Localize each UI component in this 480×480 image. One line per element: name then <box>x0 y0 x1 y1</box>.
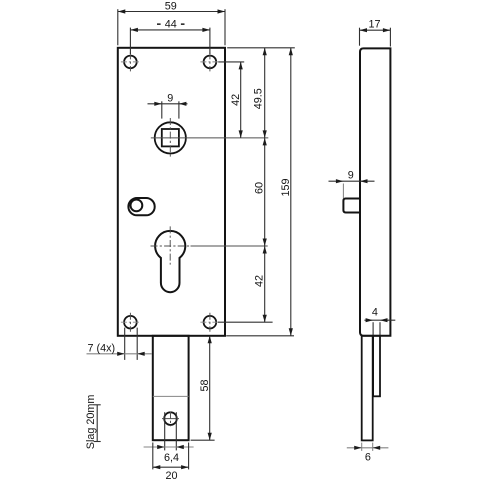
svg-text:7 (4x): 7 (4x) <box>88 343 116 355</box>
svg-text:49.5: 49.5 <box>253 88 265 109</box>
dimension 44 hole spacing <box>130 18 210 54</box>
mounting hole bottom-left <box>121 313 140 332</box>
svg-text:4: 4 <box>372 307 378 319</box>
spindle hole circle <box>155 122 186 153</box>
side view follower protrusion <box>343 199 360 213</box>
mounting hole top-right <box>200 52 219 71</box>
dimension 59 top width <box>118 0 225 45</box>
svg-text:9: 9 <box>348 169 354 181</box>
mounting hole bottom-right <box>200 313 219 332</box>
extension line bottom hole center <box>218 321 273 323</box>
dimension 58 bolt length <box>191 336 215 440</box>
svg-text:42: 42 <box>230 94 242 106</box>
dimension 20 bolt width <box>153 443 189 480</box>
svg-text:6,4: 6,4 <box>164 452 179 464</box>
side view guide strip <box>373 336 380 397</box>
extension line top hole center <box>218 61 244 63</box>
dimension 49.5 <box>253 48 267 138</box>
svg-text:9: 9 <box>167 92 173 104</box>
svg-text:44: 44 <box>165 18 177 30</box>
dimension 4 guide strip <box>364 307 395 336</box>
lock case plate outline <box>118 48 225 336</box>
svg-text:17: 17 <box>368 18 380 30</box>
extension line plate top right <box>227 47 295 49</box>
dimension 159 overall <box>280 48 293 336</box>
dimension 42 upper <box>230 62 243 138</box>
side view case body <box>360 48 390 335</box>
dimension 17 side width <box>360 18 391 46</box>
extension line plate bottom right <box>226 335 294 337</box>
svg-text:6: 6 <box>365 452 371 464</box>
dimension 60 <box>254 138 267 246</box>
svg-text:58: 58 <box>199 379 211 391</box>
bolt front view <box>153 336 189 440</box>
svg-text:Slag 20mm: Slag 20mm <box>85 395 97 450</box>
euro profile cylinder hole <box>155 231 185 292</box>
bolt guide line <box>153 395 189 397</box>
svg-text:42: 42 <box>254 275 266 287</box>
dimension 7 (4x) hole diameter <box>87 328 152 360</box>
svg-text:20: 20 <box>165 470 177 480</box>
svg-text:60: 60 <box>254 182 266 194</box>
dimension 6,4 bolt hole <box>144 412 194 464</box>
mounting hole top-left <box>121 52 140 71</box>
dimension 9 spindle square <box>148 92 188 118</box>
spindle square 9mm <box>162 129 179 146</box>
spindle centerlines <box>151 118 268 159</box>
dimension 9 follower protrusion <box>329 169 375 198</box>
latch roller oval <box>128 198 154 215</box>
dimension 6 bolt thickness <box>347 443 389 464</box>
bolt hole 6.4mm <box>162 412 179 427</box>
side view bolt strip <box>362 336 373 441</box>
svg-text:159: 159 <box>280 178 292 196</box>
svg-text:59: 59 <box>165 0 177 12</box>
stroke indicator Slag 20mm <box>85 395 101 450</box>
euro cylinder centerlines <box>151 226 268 264</box>
dimension 42 lower <box>254 246 267 322</box>
